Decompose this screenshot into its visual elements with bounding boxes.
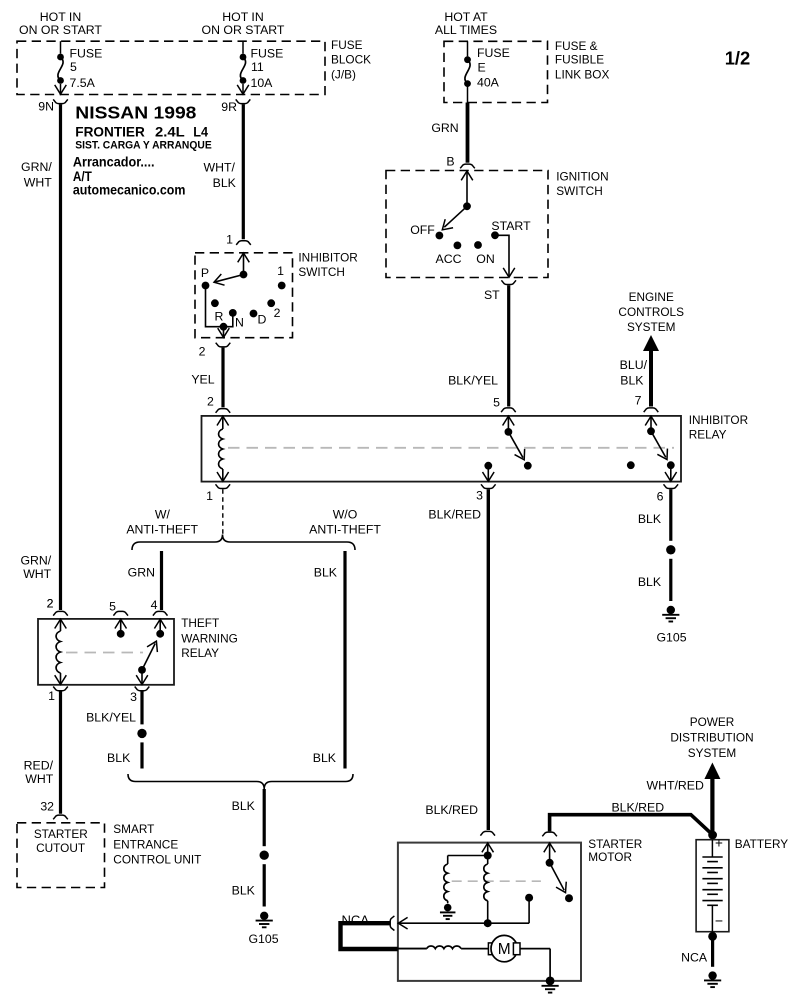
svg-text:MOTOR: MOTOR	[588, 850, 632, 864]
svg-text:ENGINE: ENGINE	[629, 290, 674, 304]
svg-text:SYSTEM: SYSTEM	[627, 320, 676, 334]
svg-text:BLK/RED: BLK/RED	[611, 800, 664, 814]
svg-text:RED/: RED/	[24, 759, 54, 773]
svg-text:WHT/: WHT/	[203, 160, 235, 174]
svg-text:BLK/RED: BLK/RED	[428, 508, 481, 522]
svg-text:CONTROLS: CONTROLS	[618, 305, 684, 319]
svg-text:WHT: WHT	[23, 567, 51, 581]
svg-text:G105: G105	[248, 932, 278, 946]
svg-text:CUTOUT: CUTOUT	[36, 841, 85, 855]
svg-text:1: 1	[226, 233, 233, 247]
svg-text:BLK: BLK	[638, 575, 662, 589]
svg-text:NISSAN 1998: NISSAN 1998	[75, 103, 196, 123]
svg-text:ANTI-THEFT: ANTI-THEFT	[126, 522, 198, 536]
svg-text:2.4L: 2.4L	[155, 124, 185, 140]
svg-text:IGNITION: IGNITION	[556, 170, 608, 184]
svg-text:GRN/: GRN/	[20, 553, 51, 567]
svg-text:10A: 10A	[251, 76, 274, 90]
svg-text:RELAY: RELAY	[181, 646, 219, 660]
svg-text:HOT IN: HOT IN	[222, 10, 263, 24]
svg-text:FUSE &: FUSE &	[555, 39, 598, 53]
svg-text:11: 11	[251, 60, 264, 74]
svg-text:5: 5	[70, 60, 77, 74]
svg-text:(J/B): (J/B)	[331, 68, 356, 82]
svg-text:4: 4	[151, 598, 158, 612]
svg-text:FUSIBLE: FUSIBLE	[555, 52, 604, 66]
svg-text:M: M	[498, 941, 511, 958]
svg-text:ST: ST	[484, 288, 500, 302]
svg-text:GRN: GRN	[431, 121, 458, 135]
svg-text:L4: L4	[193, 124, 208, 140]
svg-text:FUSE: FUSE	[251, 46, 284, 60]
svg-text:BATTERY: BATTERY	[735, 837, 788, 851]
svg-text:BLK: BLK	[620, 374, 644, 388]
svg-text:N: N	[235, 316, 244, 330]
svg-text:automecanico.com: automecanico.com	[73, 183, 185, 199]
svg-text:2: 2	[207, 395, 214, 409]
svg-text:DISTRIBUTION: DISTRIBUTION	[670, 730, 753, 744]
svg-text:ANTI-THEFT: ANTI-THEFT	[309, 522, 381, 536]
svg-text:7.5A: 7.5A	[70, 76, 96, 90]
svg-text:BLK/RED: BLK/RED	[425, 803, 478, 817]
svg-text:5: 5	[493, 396, 500, 410]
svg-text:D: D	[258, 313, 267, 327]
svg-text:BLK: BLK	[313, 751, 337, 765]
svg-text:FUSE: FUSE	[70, 46, 103, 60]
svg-text:+: +	[715, 836, 723, 851]
svg-text:ACC: ACC	[436, 252, 462, 266]
svg-text:−: −	[715, 913, 723, 929]
svg-text:BLK: BLK	[232, 884, 256, 898]
svg-text:BLK/YEL: BLK/YEL	[86, 711, 136, 725]
svg-text:FRONTIER: FRONTIER	[75, 124, 145, 140]
svg-text:BLK: BLK	[232, 799, 256, 813]
svg-text:40A: 40A	[477, 75, 500, 89]
svg-text:LINK BOX: LINK BOX	[555, 67, 610, 81]
svg-text:1: 1	[206, 489, 213, 503]
svg-text:SIST. CARGA Y ARRANQUE: SIST. CARGA Y ARRANQUE	[75, 139, 211, 151]
svg-text:BLK: BLK	[107, 751, 131, 765]
svg-text:CONTROL UNIT: CONTROL UNIT	[113, 852, 201, 866]
svg-text:E: E	[478, 60, 486, 74]
svg-text:YEL: YEL	[191, 372, 214, 386]
svg-text:BLK: BLK	[213, 176, 237, 190]
svg-text:SWITCH: SWITCH	[298, 265, 345, 279]
svg-text:RELAY: RELAY	[689, 428, 727, 442]
svg-text:1: 1	[277, 264, 284, 278]
svg-text:GRN: GRN	[128, 566, 155, 580]
svg-text:32: 32	[40, 799, 54, 813]
svg-text:STARTER: STARTER	[588, 837, 642, 851]
svg-text:R: R	[215, 310, 224, 324]
svg-text:1/2: 1/2	[725, 47, 751, 68]
svg-text:2: 2	[47, 597, 54, 611]
svg-text:5: 5	[109, 600, 116, 614]
svg-text:GRN/: GRN/	[21, 160, 52, 174]
svg-text:6: 6	[657, 490, 664, 504]
svg-text:INHIBITOR: INHIBITOR	[298, 251, 357, 265]
svg-text:W/O: W/O	[333, 507, 358, 521]
svg-text:ENTRANCE: ENTRANCE	[113, 837, 178, 851]
svg-text:3: 3	[476, 489, 483, 503]
svg-text:ON: ON	[476, 252, 494, 266]
svg-text:BLOCK: BLOCK	[331, 52, 371, 66]
svg-text:THEFT: THEFT	[181, 616, 219, 630]
svg-text:2: 2	[199, 345, 206, 359]
svg-text:9N: 9N	[38, 100, 54, 114]
svg-text:SWITCH: SWITCH	[556, 184, 603, 198]
svg-text:START: START	[491, 219, 531, 233]
svg-text:STARTER: STARTER	[34, 827, 88, 841]
svg-text:BLK: BLK	[314, 566, 338, 580]
svg-text:SYSTEM: SYSTEM	[688, 746, 737, 760]
svg-text:WARNING: WARNING	[181, 631, 238, 645]
svg-text:NCA: NCA	[681, 950, 708, 964]
svg-text:WHT: WHT	[25, 772, 53, 786]
svg-text:W/: W/	[155, 507, 171, 521]
svg-text:G105: G105	[656, 631, 686, 645]
svg-text:7: 7	[635, 394, 642, 408]
svg-text:9R: 9R	[221, 100, 237, 114]
svg-text:2: 2	[274, 306, 281, 320]
svg-text:BLU/: BLU/	[620, 358, 648, 372]
svg-text:BLK/YEL: BLK/YEL	[448, 374, 498, 388]
svg-text:BLK: BLK	[638, 512, 662, 526]
svg-text:Arrancador....: Arrancador....	[73, 154, 155, 170]
svg-text:WHT: WHT	[24, 176, 52, 190]
svg-text:3: 3	[130, 690, 137, 704]
svg-text:ON OR START: ON OR START	[19, 23, 102, 37]
svg-text:P: P	[201, 266, 209, 280]
svg-text:1: 1	[48, 689, 55, 703]
svg-text:HOT AT: HOT AT	[444, 10, 488, 24]
svg-text:ALL TIMES: ALL TIMES	[435, 23, 497, 37]
svg-text:B: B	[446, 155, 454, 169]
svg-text:FUSE: FUSE	[331, 38, 363, 52]
svg-text:INHIBITOR: INHIBITOR	[689, 413, 748, 427]
svg-text:FUSE: FUSE	[477, 46, 510, 60]
svg-text:SMART: SMART	[113, 822, 154, 836]
svg-text:OFF: OFF	[410, 223, 435, 237]
svg-text:ON OR START: ON OR START	[202, 23, 285, 37]
svg-text:POWER: POWER	[690, 715, 735, 729]
svg-text:HOT IN: HOT IN	[40, 10, 81, 24]
svg-text:WHT/RED: WHT/RED	[647, 778, 704, 792]
